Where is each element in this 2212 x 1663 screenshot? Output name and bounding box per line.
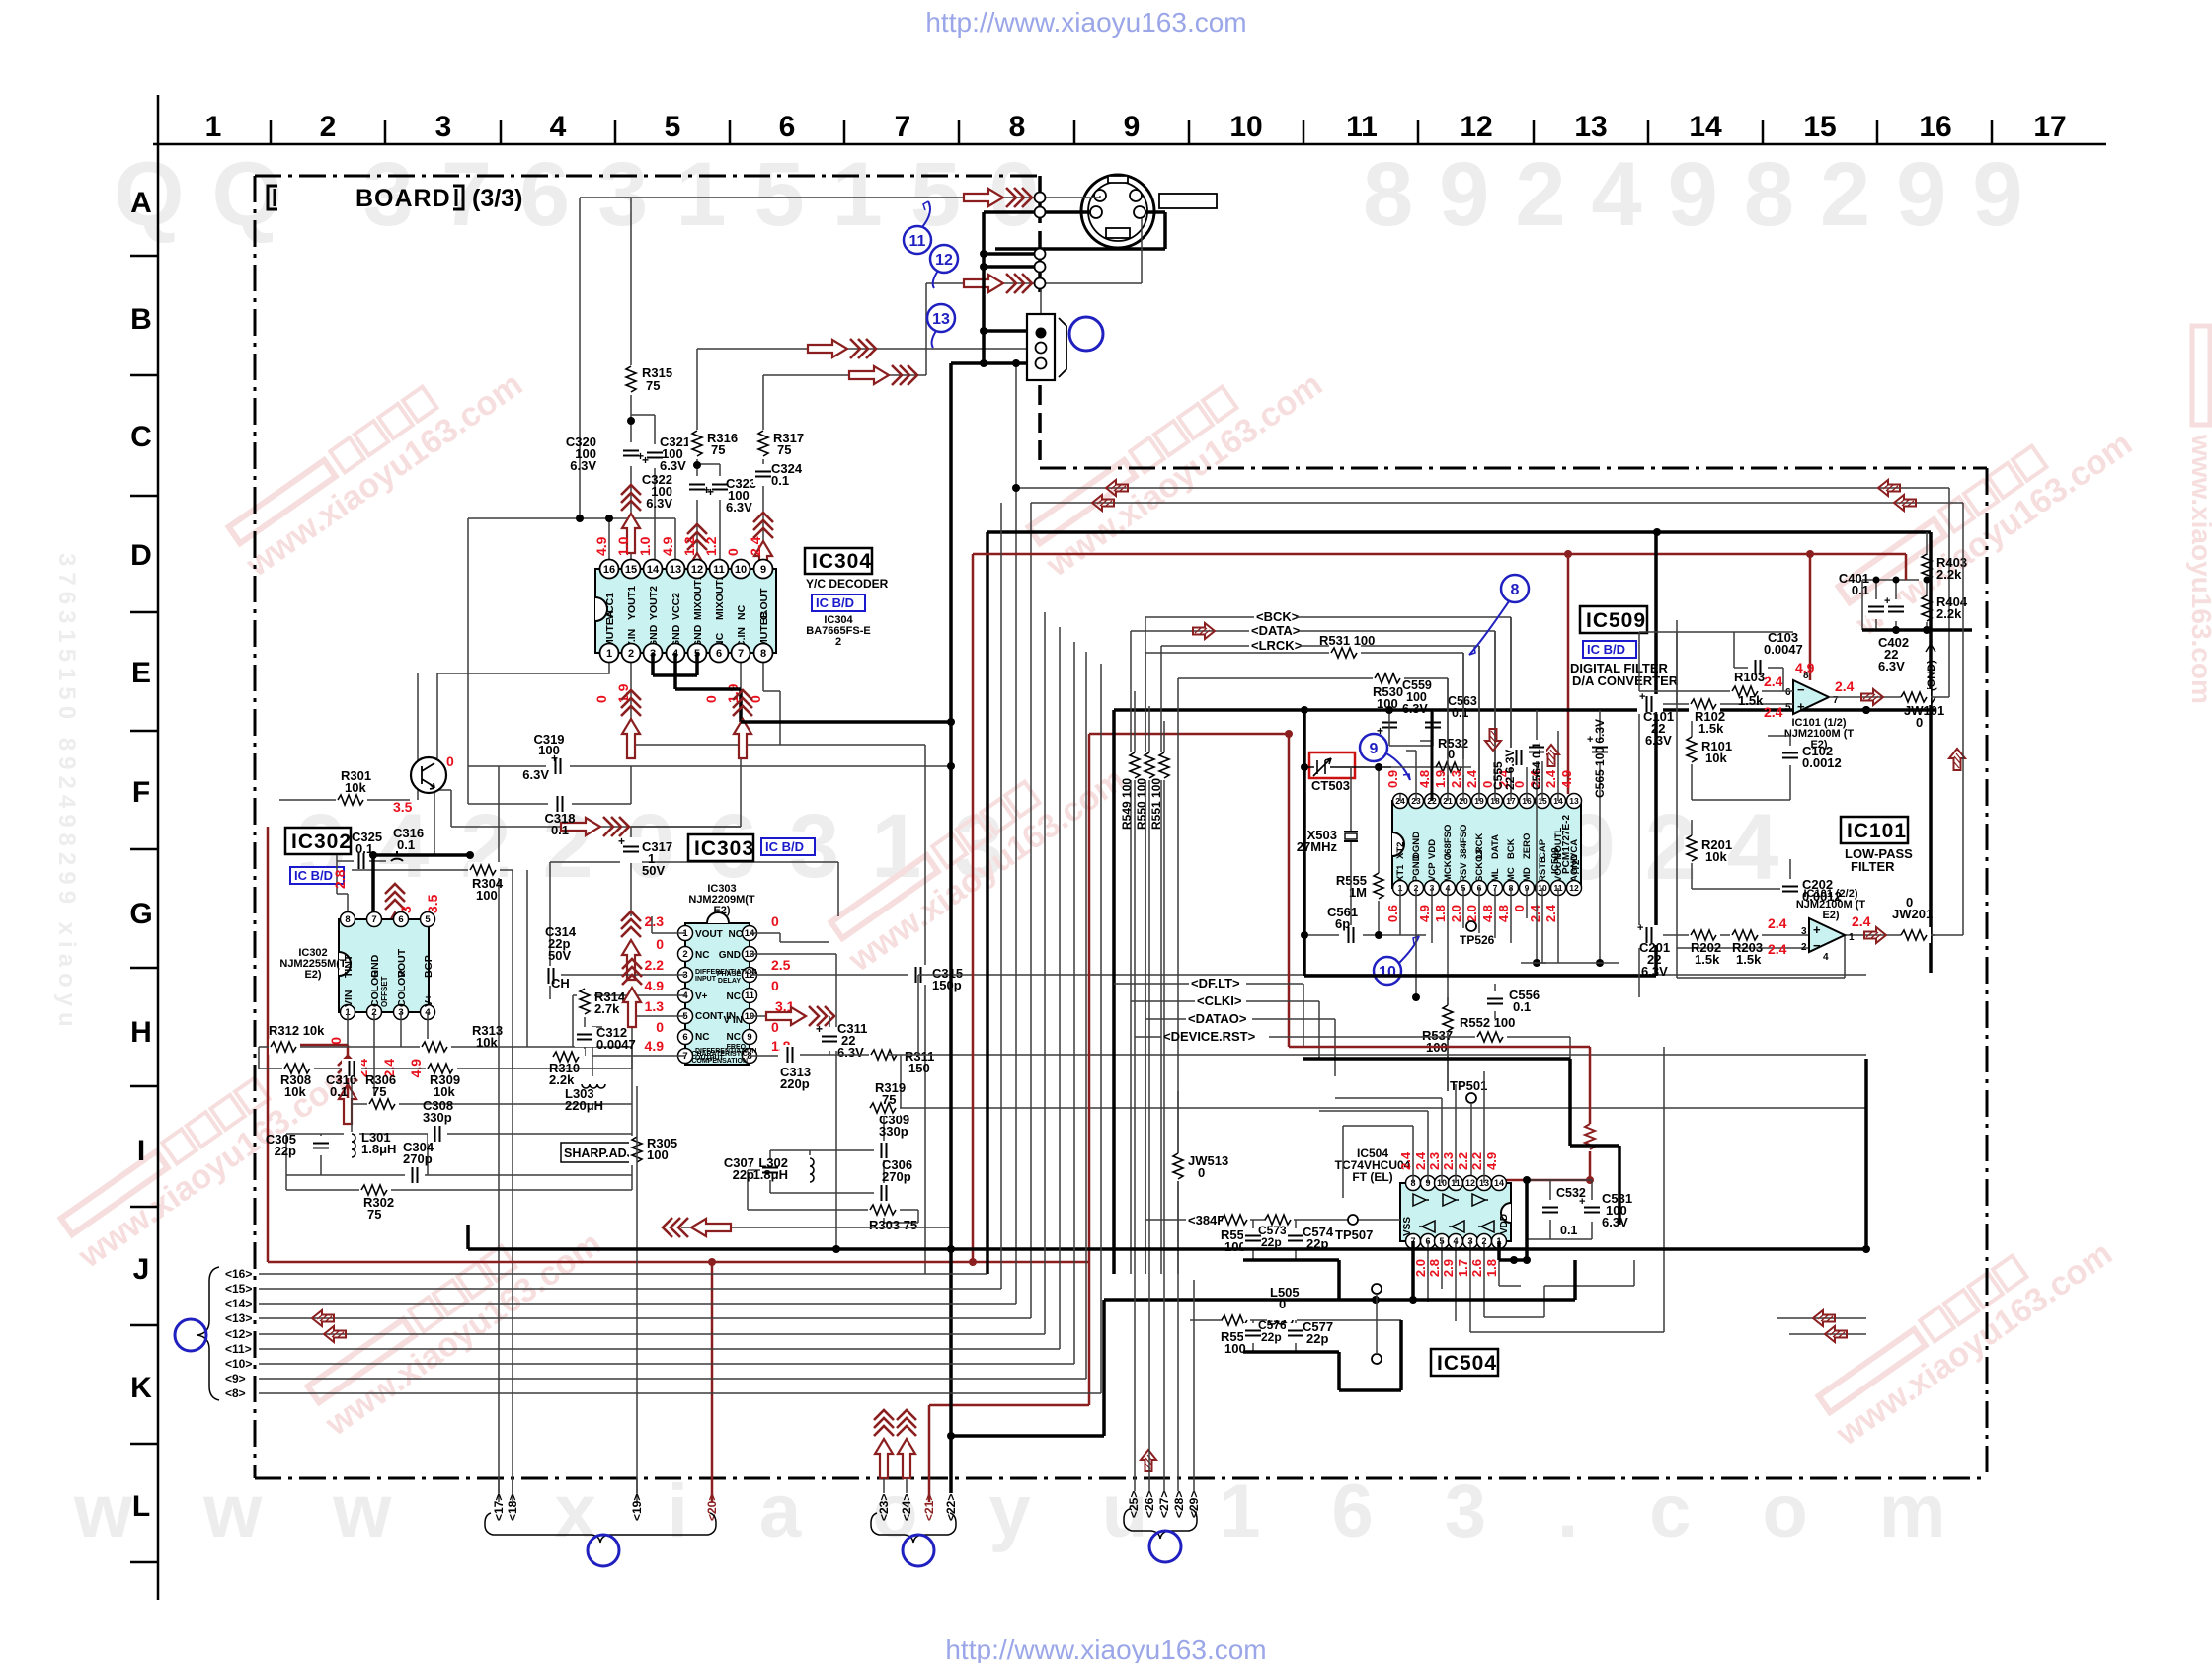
capacitor C315 <box>908 965 963 992</box>
svg-text:<17>: <17> <box>492 1494 506 1521</box>
resistor R305 <box>629 1136 677 1165</box>
svg-text:22p: 22p <box>1261 1330 1282 1344</box>
wire R301 base <box>279 799 410 801</box>
svg-text:4.8: 4.8 <box>1417 770 1432 788</box>
IC304 pin names <box>604 574 770 648</box>
resistor R203 <box>1730 927 1763 967</box>
arrow left lower <box>681 1227 951 1228</box>
capacitor C316 <box>389 826 424 861</box>
svg-text:0.1: 0.1 <box>330 1084 348 1099</box>
svg-text:2: 2 <box>835 636 841 648</box>
svg-text:<DATA>: <DATA> <box>1251 623 1301 638</box>
svg-text:220μH: 220μH <box>565 1098 603 1113</box>
svg-text:1.5k: 1.5k <box>1695 952 1720 967</box>
IC504 vss thick <box>1338 1241 1575 1300</box>
wire y287 <box>926 282 1035 284</box>
svg-text:0: 0 <box>771 913 779 929</box>
resistor R314 <box>577 988 626 1017</box>
svg-text:2: 2 <box>682 949 687 960</box>
thick left column IC509 <box>1303 710 1306 976</box>
svg-text:+: + <box>816 1022 823 1036</box>
svg-text:75: 75 <box>372 1084 386 1099</box>
svg-text:2.0: 2.0 <box>1413 1259 1428 1277</box>
svg-text:<24>: <24> <box>900 1494 913 1521</box>
svg-text:+: + <box>1639 691 1645 703</box>
svg-text:ML: ML <box>1490 868 1501 882</box>
opamp1 part label <box>1784 717 1855 751</box>
resistor R309 <box>426 1061 460 1099</box>
svg-text:2.4: 2.4 <box>1764 704 1783 720</box>
svg-text:1.8: 1.8 <box>1484 1259 1499 1277</box>
resistor R302 <box>359 1182 394 1222</box>
svg-text:100: 100 <box>1224 1239 1246 1254</box>
resistor R557 <box>1221 1312 1251 1356</box>
wire x937 down <box>924 745 926 1274</box>
capacitor C201 <box>1637 922 1670 979</box>
svg-text:10k: 10k <box>1705 751 1727 765</box>
svg-text:0: 0 <box>725 548 741 556</box>
svg-text:50V: 50V <box>548 948 571 963</box>
wire transistor collector loop <box>437 790 451 827</box>
svg-text:<CLKI>: <CLKI> <box>1197 993 1242 1008</box>
IC504 red bottom <box>1413 1259 1499 1277</box>
svg-text:0: 0 <box>771 978 779 993</box>
svg-text:150: 150 <box>908 1061 930 1075</box>
svg-text:(3/3): (3/3) <box>472 185 522 212</box>
svg-text:<20>: <20> <box>705 1494 719 1521</box>
IC509 red top <box>1385 769 1574 788</box>
svg-text:PHASE: PHASE <box>717 971 741 978</box>
svg-text:2.7k: 2.7k <box>594 1001 620 1016</box>
svg-text:PGND: PGND <box>1411 854 1422 882</box>
arrow up C322 <box>687 524 707 593</box>
arrow up IC302 gnd <box>385 884 405 952</box>
svg-text:2.4: 2.4 <box>1768 915 1787 931</box>
exit verticals 25-29 <box>1135 1274 1194 1491</box>
svg-text:2.4: 2.4 <box>1852 913 1871 929</box>
GND label <box>1926 644 1937 705</box>
svg-text:SHARP.ADJ: SHARP.ADJ <box>564 1147 634 1160</box>
svg-text:10k: 10k <box>1705 849 1727 864</box>
IC509 ICBD box <box>1583 641 1636 658</box>
svg-text:11: 11 <box>909 233 926 250</box>
resistor R101 <box>1684 737 1732 765</box>
TP526 <box>1460 921 1495 947</box>
svg-text:<19>: <19> <box>630 1494 644 1521</box>
svg-text:INPUT: INPUT <box>695 976 717 983</box>
resistor R313 <box>420 1023 503 1055</box>
svg-text:E2): E2) <box>304 969 321 981</box>
junction dots xtal <box>1301 763 1382 939</box>
capacitor C310 <box>326 1059 361 1099</box>
arrow up pin2 <box>621 690 641 758</box>
callout 8 <box>1469 575 1529 655</box>
svg-text:G: G <box>129 898 152 930</box>
svg-text:3.5: 3.5 <box>425 894 440 913</box>
svg-text:384FSO: 384FSO <box>1459 825 1469 859</box>
thick C576 gnd <box>1243 1320 1401 1390</box>
svg-text:R550 100: R550 100 <box>1135 778 1148 830</box>
capacitor C319 <box>522 732 570 782</box>
arrow up IC302 pin1 <box>338 1056 357 1124</box>
svg-text:7: 7 <box>895 111 911 143</box>
svideo connector J <box>1081 175 1154 248</box>
svg-text:15: 15 <box>1803 111 1836 143</box>
svg-text:6.3V: 6.3V <box>1641 964 1668 979</box>
svg-text:1.2: 1.2 <box>703 536 719 556</box>
svg-text:6.3V: 6.3V <box>660 458 686 473</box>
svg-text:0.1: 0.1 <box>1452 706 1468 720</box>
IC302 ICBD box <box>290 867 344 884</box>
wires right cluster <box>748 975 1866 1223</box>
svg-text:F: F <box>132 776 150 809</box>
capacitor C563 <box>1423 694 1477 738</box>
thick y731 <box>741 720 951 724</box>
wire pin16 left stub <box>468 518 675 766</box>
svg-text:75: 75 <box>646 378 660 393</box>
svg-text:MIXOUT2: MIXOUT2 <box>714 574 726 620</box>
svg-text:<12>: <12> <box>225 1327 252 1341</box>
svg-text:IC509: IC509 <box>1586 609 1646 632</box>
right stub arrows rows <box>1777 1318 1866 1334</box>
exit small arrow 26 <box>1141 1450 1156 1471</box>
svg-text:6: 6 <box>682 1032 687 1043</box>
svg-text:2.9: 2.9 <box>1441 1259 1456 1277</box>
wire Y1 bus to connector <box>580 198 1037 518</box>
svg-text:11: 11 <box>713 564 725 576</box>
capacitor C324 <box>753 461 803 488</box>
IC303 pin names <box>691 929 756 1065</box>
net label DEVICE.RST <box>1135 1029 1570 1059</box>
arrow up C320 <box>621 485 641 553</box>
svg-text:K: K <box>130 1372 152 1404</box>
svideo thin wires <box>1041 196 1142 314</box>
board border block1 <box>255 176 1040 1478</box>
svg-text:2.2: 2.2 <box>1456 1152 1470 1170</box>
svg-text:<26>: <26> <box>1143 1491 1156 1518</box>
capacitor C312 <box>575 1025 636 1052</box>
svg-text:2.2: 2.2 <box>645 957 665 973</box>
resistor R531 <box>1145 633 1463 1274</box>
svg-text:<28>: <28> <box>1172 1491 1186 1518</box>
resistor R552 <box>1460 1015 1515 1045</box>
svg-text:FILTER: FILTER <box>1851 859 1895 874</box>
svg-text:10: 10 <box>1379 964 1396 981</box>
IC303 pins right <box>743 926 757 1064</box>
svg-text:1: 1 <box>1849 932 1855 943</box>
capacitor C320 <box>566 435 644 473</box>
IC304 ICBD box <box>812 594 865 611</box>
TP501 <box>1450 1078 1487 1183</box>
maroon vertical op1 <box>1809 554 1812 680</box>
svg-text:3: 3 <box>1801 926 1807 937</box>
blue circle group2 <box>903 1535 934 1566</box>
svg-text:IC302: IC302 <box>291 831 352 853</box>
IC303 part number <box>688 883 755 916</box>
capacitor C565 <box>1587 710 1610 963</box>
svg-text:14: 14 <box>1689 111 1722 143</box>
maroon inner vertical right <box>1288 734 1291 1047</box>
svg-text:NC: NC <box>736 604 748 620</box>
ruler left line <box>157 95 160 1600</box>
resistor R315 <box>622 365 672 395</box>
svg-text:BOARD: BOARD <box>355 185 451 212</box>
thick wire y539 <box>987 532 1931 1274</box>
svg-text:12: 12 <box>1460 111 1492 143</box>
svg-text:VCP: VCP <box>1427 862 1438 882</box>
svg-text:MCKO: MCKO <box>1443 853 1454 882</box>
svg-text:75: 75 <box>882 1092 896 1107</box>
svg-text:1.3: 1.3 <box>645 998 665 1014</box>
svg-text:IC504: IC504 <box>1437 1352 1497 1375</box>
svg-text:JW101: JW101 <box>1904 703 1944 718</box>
svg-text:<18>: <18> <box>506 1494 519 1521</box>
svg-text:50V: 50V <box>642 863 665 878</box>
svg-text:<DF.LT>: <DF.LT> <box>1191 976 1240 990</box>
svg-text:2.4: 2.4 <box>1768 941 1787 957</box>
svg-text:IC B/D: IC B/D <box>765 839 804 854</box>
svg-text:2.4: 2.4 <box>1543 769 1558 788</box>
svg-text:2.2k: 2.2k <box>1936 567 1962 582</box>
arrow up C324 <box>753 513 773 581</box>
IC302 wires bottom <box>259 1012 632 1190</box>
svg-text:10k: 10k <box>476 1035 498 1050</box>
svg-text:CT503: CT503 <box>1311 778 1350 793</box>
svg-text:<DATAO>: <DATAO> <box>1188 1011 1247 1026</box>
IC303 red right <box>771 913 795 1054</box>
row arrows right <box>1813 1310 1835 1326</box>
svg-text:2.3: 2.3 <box>1427 1152 1442 1170</box>
maroon VCA supply <box>1567 554 1570 794</box>
svg-text:http://www.xiaoyu163.com: http://www.xiaoyu163.com <box>945 1634 1266 1663</box>
svg-text:<8>: <8> <box>225 1386 246 1400</box>
resistor R304 <box>468 862 504 903</box>
svg-text:6: 6 <box>1785 687 1791 698</box>
IC303 label box <box>688 834 754 861</box>
thick trunk y719 <box>1114 710 1935 1274</box>
svg-text:VDD: VDD <box>1499 1214 1510 1234</box>
svg-text:10k: 10k <box>345 780 366 795</box>
svg-text:270p: 270p <box>882 1169 911 1184</box>
IC509 vdd thick <box>1431 746 1434 801</box>
svg-text:<22>: <22> <box>944 1494 958 1521</box>
ruler left letters <box>129 187 152 1523</box>
svg-text:22p: 22p <box>733 1167 754 1182</box>
resistor R403 <box>1919 532 1967 582</box>
svg-text:2.3: 2.3 <box>1449 770 1463 788</box>
svg-text:E2): E2) <box>1822 910 1839 921</box>
svg-text:0: 0 <box>328 1037 344 1045</box>
svg-text:13: 13 <box>1574 111 1607 143</box>
capacitor C308 <box>423 1098 453 1144</box>
svg-text:XT1: XT1 <box>1395 864 1406 882</box>
connector CN box <box>1027 314 1066 380</box>
capacitor C402 <box>1878 595 1909 673</box>
svg-text:4.9: 4.9 <box>660 536 675 556</box>
svg-text:12: 12 <box>691 564 703 576</box>
resistor R303 <box>868 1202 917 1232</box>
svg-text:12: 12 <box>1569 883 1579 893</box>
inductor L302 <box>753 1155 818 1185</box>
svg-text:6.3V: 6.3V <box>522 767 549 782</box>
wire column C321 <box>631 415 655 569</box>
junction dot C325 <box>369 851 377 859</box>
IC504 inverters <box>1413 1194 1494 1232</box>
IC304 label box <box>805 548 872 574</box>
IC303 wires left <box>550 916 918 1249</box>
exit verticals 17-20 <box>499 1478 637 1493</box>
maroon junction dots trunk <box>708 1258 977 1266</box>
resistor JW101 <box>1901 689 1944 730</box>
svg-text:ZERO: ZERO <box>1522 833 1533 859</box>
svg-text:75: 75 <box>777 442 791 457</box>
svg-text:VCC2: VCC2 <box>671 593 682 620</box>
IC302 pins top <box>341 912 435 927</box>
svg-text:NC: NC <box>727 991 741 1002</box>
border feedthrough circles <box>1035 193 1046 289</box>
svg-text:MUTEA: MUTEA <box>604 610 616 648</box>
svg-text:C565 100 6.3V: C565 100 6.3V <box>1593 719 1607 798</box>
arrow up right col <box>1949 749 1965 770</box>
arrow right DATA <box>1193 623 1215 639</box>
board border block2 <box>255 468 1987 1478</box>
opamp2 feed wires <box>1639 620 1935 997</box>
capacitor C309 <box>874 1112 909 1160</box>
svg-text:YOUT2: YOUT2 <box>648 586 660 620</box>
wire jw201 out <box>1931 503 1963 935</box>
maroon IC504 supply <box>1289 1047 1590 1183</box>
svg-text:7: 7 <box>371 914 376 925</box>
opamp1 red values <box>1764 660 1855 720</box>
wire column pin15 <box>630 198 632 569</box>
arrow right IC303 pin10 <box>766 1006 834 1026</box>
capacitor C556 <box>1485 984 1540 1019</box>
svg-text:IC303: IC303 <box>694 837 754 860</box>
wire pin8 column down <box>763 653 780 745</box>
svg-text:E: E <box>131 657 151 689</box>
svg-text:8: 8 <box>760 648 766 660</box>
callout 10 <box>1374 936 1419 985</box>
svg-text:12: 12 <box>1465 1178 1475 1188</box>
svg-text:COMPENSATION: COMPENSATION <box>691 1058 748 1065</box>
net label 384FS <box>1145 1213 1400 1227</box>
IC302 thick gnd wire <box>373 855 470 919</box>
wire R305 column exit19 <box>636 1086 638 1502</box>
svg-text:0: 0 <box>1512 905 1527 911</box>
wire y353 to connector <box>697 348 1028 350</box>
svg-text:6: 6 <box>398 914 403 925</box>
IC304 gnd thick <box>653 653 741 722</box>
svg-text:75: 75 <box>367 1207 381 1222</box>
maroon loop outer <box>973 554 1906 1262</box>
opamp IC101-2 <box>1801 918 1855 963</box>
svg-text:B: B <box>130 303 152 336</box>
svg-text:<BCK>: <BCK> <box>1256 609 1300 624</box>
svg-text:<10>: <10> <box>225 1357 252 1371</box>
wire C311 column <box>780 942 889 1055</box>
svg-text:17: 17 <box>2033 111 2066 143</box>
arrow up pin7 <box>733 690 752 758</box>
crystal X503 <box>1297 767 1358 855</box>
svg-text:75: 75 <box>711 442 725 457</box>
svg-text:TP507: TP507 <box>1335 1227 1373 1242</box>
svg-text:1.8: 1.8 <box>1433 905 1448 922</box>
resistor R308 <box>280 1061 314 1099</box>
exit arrows up 23 24 <box>874 1410 894 1478</box>
IC509 body <box>1392 801 1581 888</box>
svideo label rect <box>1159 194 1217 208</box>
blue circle group3 <box>1149 1531 1181 1562</box>
svg-text:<13>: <13> <box>225 1311 252 1325</box>
svg-text:DELAY: DELAY <box>718 978 741 985</box>
opamp IC101-1 <box>1785 671 1839 714</box>
capacitor C323 <box>707 476 756 515</box>
resistor R301 <box>336 768 371 808</box>
svg-text:JW513: JW513 <box>1188 1153 1228 1168</box>
JW513 <box>1170 1091 1228 1274</box>
svg-text:YOUT1: YOUT1 <box>626 586 638 620</box>
wire R304 loop <box>352 870 513 928</box>
thick gnd return x963 <box>951 363 1338 1436</box>
arrow small left y494 <box>1106 480 1128 496</box>
svg-text:R551 100: R551 100 <box>1149 778 1163 830</box>
IC504 pins bottom <box>1406 1234 1507 1249</box>
resistors R549 R550 R551 <box>1120 691 1172 1274</box>
capacitor C576 <box>1243 1318 1287 1352</box>
resistor R312 <box>269 1023 325 1055</box>
svg-text:L: L <box>132 1490 150 1523</box>
svg-text:+: + <box>642 453 649 467</box>
svg-text:+: + <box>707 485 714 499</box>
IC304 red voltages top <box>593 536 763 556</box>
resistor R556 <box>1221 1212 1251 1254</box>
svg-text:VDD: VDD <box>1427 839 1438 859</box>
resistor R530 <box>1178 671 1448 1274</box>
capacitor C325 <box>337 830 386 869</box>
svg-text:11: 11 <box>745 990 755 1001</box>
maroon loop inner <box>1089 734 1289 1405</box>
svg-text:RSV: RSV <box>1459 862 1469 882</box>
svg-text:22p: 22p <box>1261 1235 1282 1249</box>
svg-text:0.1: 0.1 <box>771 473 789 488</box>
svg-text:1.8μH: 1.8μH <box>753 1167 788 1182</box>
svg-text:5: 5 <box>425 914 431 925</box>
wire R316 column <box>696 349 698 569</box>
svg-text:2: 2 <box>1801 942 1807 953</box>
svg-text:4.9: 4.9 <box>593 536 609 556</box>
label LRCK <box>1161 638 1479 1274</box>
arrow up hatched <box>1543 745 1559 766</box>
resistor R532 <box>1391 736 1471 775</box>
capacitor C306 <box>874 1157 912 1203</box>
svg-text:4.9: 4.9 <box>1559 770 1574 788</box>
svg-text:IC304: IC304 <box>812 550 872 573</box>
svg-text:D/A CONVERTER: D/A CONVERTER <box>1572 673 1679 688</box>
red empty rect <box>1309 752 1355 778</box>
svg-text:10: 10 <box>735 564 747 576</box>
svg-text:4.8: 4.8 <box>1496 905 1511 922</box>
svg-text:R552 100: R552 100 <box>1460 1015 1515 1030</box>
IC303 ICBD box <box>761 838 815 855</box>
svg-text:<DEVICE.RST>: <DEVICE.RST> <box>1163 1029 1256 1044</box>
svg-text:+: + <box>1637 922 1643 934</box>
svg-text:10: 10 <box>1229 111 1262 143</box>
label BCK <box>1145 609 1511 1274</box>
opamp2 part label <box>1796 888 1866 921</box>
J row riser verticals <box>1001 503 1101 1393</box>
maroon into C401 <box>1905 554 1908 580</box>
svg-text:10k: 10k <box>434 1084 455 1099</box>
